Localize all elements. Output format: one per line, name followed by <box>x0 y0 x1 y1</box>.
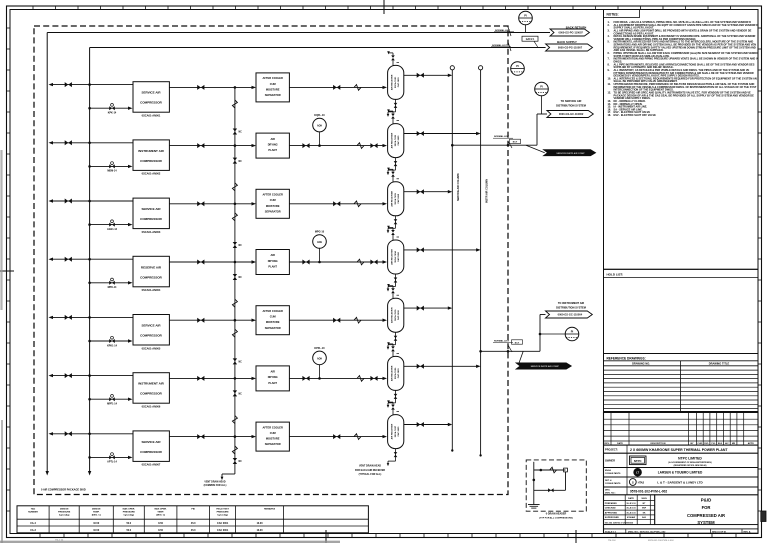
tag label MPK-14 <box>108 286 117 289</box>
svg-text:SIGN: SIGN <box>641 498 647 500</box>
valve on row 7 discharge <box>197 434 204 439</box>
node service air column <box>450 66 454 452</box>
wire receiver 1 outlet <box>404 74 453 77</box>
instrument PI service air <box>535 82 549 114</box>
wire row 4 suction from header B <box>88 281 132 284</box>
valve on receiver 5 outlet <box>417 306 424 311</box>
compressor 0SCA01-AN007 <box>133 431 169 467</box>
svg-text:AIR RECEIVER: AIR RECEIVER <box>391 132 394 148</box>
svg-text:AGE1-14: AGE1-14 <box>107 228 118 231</box>
drain on receiver 4 <box>387 274 398 292</box>
valve on row 6 discharge <box>197 376 204 381</box>
tag label KPK-14 <box>108 112 117 115</box>
fold mark left center <box>0 270 14 272</box>
crossing label service air <box>493 135 521 148</box>
node header B (air supply header) <box>88 48 91 476</box>
svg-text:13.00: 13.00 <box>257 522 264 525</box>
svg-text:NORMAL LIST: NORMAL LIST <box>494 339 510 342</box>
callout back supply pipe tag <box>546 44 593 51</box>
legend drain piping <box>533 462 568 505</box>
tag label KPK1-14 <box>107 344 118 347</box>
package label <box>41 489 86 492</box>
svg-text:REFERENCE DRAWINGS:: REFERENCE DRAWINGS: <box>607 356 646 360</box>
fold marks bottom <box>326 530 576 543</box>
drain on receiver 6 <box>387 390 398 408</box>
air receiver 3 <box>388 182 404 216</box>
svg-text:10.50: 10.50 <box>93 529 100 532</box>
svg-text:NUMBER: NUMBER <box>28 512 38 514</box>
svg-text:8.50: 8.50 <box>158 529 163 532</box>
valve on row 5 discharge <box>197 318 204 323</box>
wire row 6 to cooler/dryer <box>235 377 256 380</box>
svg-text:COMPRESSOR: COMPRESSOR <box>140 392 163 396</box>
line break row 1 <box>354 85 361 91</box>
svg-text:DESIGN: DESIGN <box>92 509 101 511</box>
junction row 7 at header B <box>88 433 91 436</box>
wire row 1 suction from header B <box>88 107 132 110</box>
wire row 1 compressor discharge <box>169 86 235 88</box>
after-cooler cum moisture separator row 1 <box>256 73 289 102</box>
svg-text:30-JLY-10: 30-JLY-10 <box>626 512 636 514</box>
svg-text:DATE: DATE <box>628 497 634 500</box>
svg-text:CAP:1850: CAP:1850 <box>397 368 400 379</box>
svg-text:0SCA01-AN001: 0SCA01-AN001 <box>142 114 161 118</box>
svg-text:L & T - SARGENT & LUNDY LTD: L & T - SARGENT & LUNDY LTD <box>657 480 703 484</box>
svg-text:LT: LT <box>636 471 639 475</box>
wire compressor interconnect manifold <box>234 87 236 474</box>
crossing label instrument air <box>493 339 523 352</box>
NC valve on manifold <box>233 242 242 248</box>
wire row 2 suction from header B <box>88 165 132 168</box>
legend typical drain box (dashed) <box>526 460 586 511</box>
svg-text:3.: 3. <box>608 29 610 33</box>
svg-text:0000-GS-GC-110004: 0000-GS-GC-110004 <box>558 313 583 317</box>
svg-text:NC: NC <box>239 132 243 134</box>
NC valve on manifold <box>233 390 242 396</box>
svg-text:0SCA-TK03: 0SCA-TK03 <box>394 192 397 204</box>
line break row 3 <box>354 201 361 207</box>
svg-text:0SCA01-AN005: 0SCA01-AN005 <box>142 346 161 350</box>
valve on receiver 3 outlet <box>417 189 424 194</box>
compressor 0SCA01-AN002 <box>133 140 169 176</box>
svg-text:NOTES:: NOTES: <box>607 13 619 17</box>
valve on row 7 cooler outlet <box>333 434 340 439</box>
air drying plant row 6 <box>256 366 289 391</box>
svg-text:TO INSTRUMENT AIR: TO INSTRUMENT AIR <box>558 301 584 305</box>
svg-text:CAP:1850: CAP:1850 <box>397 135 400 146</box>
flex connector on manifold <box>232 416 237 424</box>
svg-text:CAC 0001: CAC 0001 <box>217 529 229 532</box>
compressor 0SCA01-AN004 <box>133 256 169 292</box>
notes title <box>604 10 640 18</box>
crossing label back supply <box>491 42 511 51</box>
wire row 1 to cooler/dryer <box>235 86 256 89</box>
svg-text:COMPRESSOR: COMPRESSOR <box>140 159 163 163</box>
svg-text:MOISTURE: MOISTURE <box>266 204 280 208</box>
node instrument air column <box>479 66 483 457</box>
NC valve on manifold <box>233 274 242 280</box>
wire back supply pipe <box>90 47 546 49</box>
svg-text:AIR RECEIVER: AIR RECEIVER <box>391 249 394 265</box>
svg-text:TM-102: TM-102 <box>608 540 616 542</box>
wire receiver 3 outlet <box>404 190 453 193</box>
junction row 3 at interconnect <box>234 203 237 206</box>
svg-text:COMPRESSOR: COMPRESSOR <box>140 334 163 338</box>
callout service-instr air comp (dark) <box>526 145 596 156</box>
svg-text:4.: 4. <box>608 34 610 38</box>
flex connector on manifold <box>232 299 237 307</box>
wire row 2 compressor discharge <box>169 145 235 147</box>
flex connector on manifold <box>232 446 237 454</box>
valve on row 2 discharge <box>197 143 204 148</box>
label to instrument air distribution <box>556 301 586 309</box>
line break row 2 <box>357 143 364 149</box>
svg-text:SNP: SNP <box>642 508 647 510</box>
junction row 4 at header B <box>88 258 91 261</box>
svg-text:30-JLY-10: 30-JLY-10 <box>626 508 636 510</box>
title block outline <box>604 412 759 533</box>
valve KPK1-14 on suction line <box>109 336 115 343</box>
svg-text:DWG. NO.:: DWG. NO.: <box>605 492 616 494</box>
svg-text:9.: 9. <box>608 68 610 72</box>
svg-text:CAP:1850: CAP:1850 <box>397 251 400 262</box>
svg-text:SERVICE AIR: SERVICE AIR <box>141 440 161 444</box>
svg-text:NC: NC <box>239 277 243 279</box>
compressor 0SCA01-AN001 <box>133 82 169 118</box>
wire back return pipe <box>47 32 550 34</box>
crossing label back return <box>494 27 514 36</box>
revision table <box>604 412 759 445</box>
svg-text:(DEG. C): (DEG. C) <box>156 515 165 517</box>
svg-text:(REGISTERED OFFICE: NEW DELHI): (REGISTERED OFFICE: NEW DELHI) <box>674 465 707 467</box>
svg-text:NC: NC <box>239 245 243 247</box>
instrument PI on battery limit <box>511 62 525 76</box>
svg-text:AFTER COOLER: AFTER COOLER <box>262 309 283 313</box>
label vent drain header receivers <box>355 465 385 477</box>
svg-text:ENGG: ENGG <box>605 470 612 472</box>
NC valve on manifold <box>233 129 242 135</box>
svg-text:APPD: APPD <box>748 442 754 445</box>
svg-text:NORMAL LIST: NORMAL LIST <box>492 44 508 47</box>
svg-text:NC: NC <box>239 394 243 396</box>
svg-text:TAG: TAG <box>31 508 36 511</box>
wire row 6 compressor discharge <box>169 377 235 379</box>
svg-text:0000-GS-PG-110007: 0000-GS-PG-110007 <box>558 46 583 50</box>
NC valve on manifold <box>233 458 242 464</box>
title block approval table <box>604 495 759 525</box>
valve on row 6 header-A line <box>65 373 72 378</box>
relief valve on receiver 1 <box>387 51 399 65</box>
svg-text:(COMMON FOR ALL): (COMMON FOR ALL) <box>204 484 227 487</box>
valve on row 1 cooler outlet <box>333 85 340 90</box>
air drying plant row 4 <box>256 250 289 275</box>
wire row 4 compressor discharge <box>169 261 235 263</box>
svg-text:FOR: FOR <box>702 505 711 510</box>
valve 2 on row 4 dryer outlet <box>370 260 377 265</box>
title block project row <box>604 445 759 453</box>
wire service air takeoff <box>451 114 547 147</box>
svg-text:0SCA01-AN006: 0SCA01-AN006 <box>142 405 161 409</box>
svg-text:SERVICE INSTR AIR COMP: SERVICE INSTR AIR COMP <box>531 365 560 368</box>
relief valve on receiver 4 <box>387 226 399 240</box>
valve KPK-14 on suction line <box>109 104 115 111</box>
svg-text:9578-001-102-PVM-L-002: 9578-001-102-PVM-L-002 <box>648 540 674 542</box>
title block consultant row (L&T) <box>604 468 759 478</box>
package battery limit (dashed boundary) <box>34 26 508 495</box>
svg-text:0SCA01-AN003: 0SCA01-AN003 <box>142 230 161 234</box>
svg-text:COMPRESSED AIR: COMPRESSED AIR <box>687 513 725 518</box>
svg-text:SEPARATOR: SEPARATOR <box>265 209 281 213</box>
svg-text:DET. &: DET. & <box>605 480 612 482</box>
svg-text:CONSULTANTS: CONSULTANTS <box>605 482 621 485</box>
valve MPK-14 on suction line <box>109 278 115 285</box>
legend caption <box>539 513 573 520</box>
svg-text:SERVICE AIR COLUMN: SERVICE AIR COLUMN <box>457 173 460 201</box>
border zone ticks bottom <box>40 534 736 538</box>
title block drawing title <box>655 495 758 525</box>
zone marker right border <box>761 511 766 522</box>
wire receiver 7 outlet <box>404 423 453 426</box>
wire row 4 dryer outlet <box>289 260 387 263</box>
svg-text:CA-4: CA-4 <box>30 522 36 525</box>
svg-text:PLANT: PLANT <box>268 264 277 268</box>
wire row 6 dryer outlet <box>289 377 387 380</box>
svg-text:50.0: 50.0 <box>126 529 131 532</box>
wire row 7 suction from header B <box>88 456 132 459</box>
compressor 0SCA01-AN005 <box>133 315 169 351</box>
svg-text:ESV - ELECTRIC SHUT OFF VALVE: ESV - ELECTRIC SHUT OFF VALVE <box>614 113 657 117</box>
svg-text:KPK-14: KPK-14 <box>108 112 117 115</box>
svg-text:kg/cm2(g): kg/cm2(g) <box>124 515 135 517</box>
svg-text:DISTRIBUTION SYSTEM: DISTRIBUTION SYSTEM <box>556 306 586 310</box>
svg-text:kg/cm2(g): kg/cm2(g) <box>217 515 228 517</box>
svg-text:9578-001-102-PVM-L-002: 9578-001-102-PVM-L-002 <box>630 489 667 493</box>
svg-text:0000-GS-PG-110007: 0000-GS-PG-110007 <box>559 31 584 35</box>
svg-text:PRESSURE: PRESSURE <box>123 512 136 514</box>
svg-text:BACK SUPPLY: BACK SUPPLY <box>557 40 577 44</box>
svg-text:5.: 5. <box>608 40 610 44</box>
svg-text:VENT DRAIN HEAD: VENT DRAIN HEAD <box>359 465 381 468</box>
flex connector on manifold <box>232 183 237 191</box>
svg-text:CUM: CUM <box>270 82 276 86</box>
after-cooler cum moisture separator row 7 <box>256 422 289 451</box>
svg-text:SERVICE AIR: SERVICE AIR <box>141 91 161 95</box>
wire row 1 discharge to header A <box>49 83 134 86</box>
junction row 2 at header B <box>88 142 91 145</box>
svg-text:LARSEN & TOUBRO LIMITED: LARSEN & TOUBRO LIMITED <box>658 471 703 475</box>
wire row 2 dryer outlet <box>289 144 387 147</box>
manifold drain label <box>204 481 227 487</box>
svg-text:MPK-14: MPK-14 <box>108 286 117 289</box>
svg-text:NC: NC <box>239 161 243 163</box>
callout service instr air comp 2 (dark) <box>516 351 571 369</box>
air receiver 7 <box>388 415 404 449</box>
svg-text:DRG.: DRG. <box>605 489 611 491</box>
svg-text:SAJ: SAJ <box>642 516 646 519</box>
relief valve on receiver 6 <box>387 342 399 356</box>
flex connector on manifold <box>232 329 237 337</box>
line break row 4 <box>357 259 364 265</box>
valve on row 5 cooler outlet <box>333 318 340 323</box>
svg-text:PI: PI <box>571 329 574 333</box>
svg-text:13.00: 13.00 <box>257 529 264 532</box>
svg-text:8.50: 8.50 <box>158 522 163 525</box>
svg-text:KQFL-10: KQFL-10 <box>314 114 325 117</box>
svg-text:TM-1 0Z: TM-1 0Z <box>55 540 64 542</box>
svg-text:11.: 11. <box>608 82 612 86</box>
NC valve on manifold <box>233 358 242 364</box>
svg-text:10.: 10. <box>608 76 612 80</box>
valve on row 3 cooler outlet <box>333 201 340 206</box>
valve AGE1-14 on suction line <box>109 220 115 227</box>
valve on row 1 header-A line <box>65 82 72 87</box>
svg-text:18.: 18. <box>608 113 612 117</box>
svg-text:COMPRESSOR: COMPRESSOR <box>140 275 163 279</box>
svg-text:MAX OPER.: MAX OPER. <box>154 508 167 511</box>
svg-text:SUPERVISED: SUPERVISED <box>605 517 619 519</box>
svg-text:SYSTEM: SYSTEM <box>697 520 715 525</box>
svg-text:NORMAL LIST: NORMAL LIST <box>495 29 511 32</box>
svg-text:PRESSURE: PRESSURE <box>217 512 230 514</box>
air receiver 2 <box>388 124 404 158</box>
svg-text:INSTRUMENTATION AND PIPING PRE: INSTRUMENTATION AND PIPING PRESSURE UPWA… <box>614 57 758 61</box>
relief valve on receiver 7 <box>387 400 399 414</box>
instrument PI on back return <box>519 11 533 32</box>
line break row 7 <box>354 434 361 440</box>
valve on receiver 1 outlet <box>417 73 424 78</box>
svg-text:0SCA-TK04: 0SCA-TK04 <box>394 251 397 263</box>
wire receiver 2 outlet <box>404 132 481 135</box>
junction row 2 at interconnect <box>234 144 237 147</box>
svg-text:0SCA-TK01: 0SCA-TK01 <box>394 76 397 88</box>
valve on row 7 header-A line <box>65 431 72 436</box>
callout service air pipe tag <box>547 111 593 118</box>
manifold drain elbow <box>221 474 235 480</box>
NC valve on manifold <box>233 158 242 164</box>
valve on row 2 header-A line <box>65 140 72 145</box>
notes text <box>608 20 759 117</box>
drain on receiver 5 <box>387 332 398 350</box>
tag label MPF1-14 <box>107 403 118 406</box>
svg-text:8.: 8. <box>608 62 610 66</box>
junction row 6 at interconnect <box>234 377 237 380</box>
flow instrument KQFL-10 <box>313 114 327 147</box>
junction row 6 at header B <box>88 374 91 377</box>
svg-text:CA-3: CA-3 <box>30 529 36 532</box>
svg-text:INSTRUMENT AIR: INSTRUMENT AIR <box>138 149 164 153</box>
wire row 2 discharge to header A <box>49 141 134 144</box>
svg-text:0SCA-TK05: 0SCA-TK05 <box>394 309 397 321</box>
svg-text:CAC 0001: CAC 0001 <box>217 522 229 525</box>
equipment data table <box>17 506 368 533</box>
flex connector on manifold <box>232 100 237 108</box>
svg-text:CAP:1850: CAP:1850 <box>397 77 400 88</box>
svg-text:45.0: 45.0 <box>191 529 196 532</box>
svg-text:FOR EACH AIR RECEIVER: FOR EACH AIR RECEIVER <box>355 469 385 472</box>
svg-text:DESIGN: DESIGN <box>60 509 69 511</box>
callout back return pipe tag <box>550 29 589 36</box>
svg-text:SEPARATOR: SEPARATOR <box>265 93 281 97</box>
valve on row 4 header-A line <box>65 257 72 262</box>
svg-text:P&ID: P&ID <box>701 498 712 503</box>
svg-text:AIR RECEIVER: AIR RECEIVER <box>391 74 394 90</box>
wire row 3 cooler outlet <box>289 202 387 205</box>
wire row 7 compressor discharge <box>169 436 235 438</box>
svg-text:DRYING: DRYING <box>268 375 278 379</box>
valve on row 6 dryer outlet <box>302 376 309 381</box>
svg-text:APPROVED: APPROVED <box>605 511 618 514</box>
svg-text:COMPRESSOR: COMPRESSOR <box>140 217 163 221</box>
svg-text:AIR RECEIVER: AIR RECEIVER <box>391 191 394 207</box>
air receiver 1 <box>388 65 404 99</box>
svg-text:MOISTURE: MOISTURE <box>266 87 280 91</box>
air receiver 5 <box>388 298 404 332</box>
svg-text:SEPARATOR: SEPARATOR <box>265 442 281 446</box>
svg-text:AIR: AIR <box>270 137 275 141</box>
instrument PI instrument air <box>539 327 579 341</box>
drain on receiver 2 <box>387 158 398 176</box>
valve on row 3 header-A line <box>65 199 72 204</box>
svg-text:0SCA-TK07: 0SCA-TK07 <box>394 425 397 437</box>
label back return <box>566 26 587 30</box>
line break row 5 <box>354 317 361 323</box>
svg-text:7.: 7. <box>608 57 610 61</box>
svg-text:HOLD LIST:: HOLD LIST: <box>607 273 624 277</box>
wire row 5 to cooler/dryer <box>235 319 256 322</box>
notes panel box <box>604 10 759 270</box>
svg-text:PI: PI <box>540 84 543 88</box>
relief valve on receiver 2 <box>387 109 399 123</box>
svg-text:SEPARATOR: SEPARATOR <box>265 326 281 330</box>
svg-text:M SHAW: M SHAW <box>627 516 635 519</box>
wire row 5 discharge to header A <box>49 316 134 319</box>
svg-text:MPF1-14: MPF1-14 <box>107 403 118 406</box>
svg-text:KPFL-10: KPFL-10 <box>314 347 325 350</box>
title block scale row <box>604 529 759 534</box>
svg-text:PI: PI <box>524 13 527 17</box>
valve on row 4 dryer outlet <box>302 260 309 265</box>
svg-text:30-JLY-10: 30-JLY-10 <box>626 503 636 505</box>
svg-text:PID: PID <box>191 509 195 511</box>
svg-text:INSTRUMENT AIR: INSTRUMENT AIR <box>138 382 164 386</box>
svg-text:AFTER COOLER: AFTER COOLER <box>262 76 283 80</box>
svg-text:0 AIR COMPRESSOR PACKAGE SKID: 0 AIR COMPRESSOR PACKAGE SKID <box>41 489 86 492</box>
valve APTL-14 on suction line <box>109 453 115 460</box>
svg-text:RESERVE AIR: RESERVE AIR <box>141 265 162 269</box>
svg-text:0SCA01-AN002: 0SCA01-AN002 <box>142 172 161 176</box>
wire receiver 4 outlet <box>404 248 481 251</box>
svg-text:50.0: 50.0 <box>126 522 131 525</box>
svg-text:kg/cm2(g): kg/cm2(g) <box>59 515 70 517</box>
svg-text:NTPC LIMITED: NTPC LIMITED <box>678 456 702 460</box>
svg-text:ECY: ECY <box>513 142 518 144</box>
tag GACV-1 <box>522 36 538 47</box>
tag label APTL-14 <box>107 461 117 464</box>
svg-text:COMPRESSOR: COMPRESSOR <box>140 101 163 105</box>
svg-text:SERVICE INSTR AIR COMP: SERVICE INSTR AIR COMP <box>556 152 585 155</box>
hold list panel <box>604 269 759 353</box>
label instrument air column <box>485 179 488 203</box>
flex connector on manifold <box>232 213 237 221</box>
wire row 7 to cooler/dryer <box>235 435 256 438</box>
svg-text:VENT DRAIN HEAD: VENT DRAIN HEAD <box>204 481 226 484</box>
line break row 6 <box>357 376 364 382</box>
wire row 3 compressor discharge <box>169 203 235 205</box>
svg-text:DRYING: DRYING <box>268 259 278 263</box>
junction row 1 at header B <box>88 83 91 86</box>
svg-text:45.0: 45.0 <box>191 522 196 525</box>
border zone ticks top <box>33 6 731 10</box>
